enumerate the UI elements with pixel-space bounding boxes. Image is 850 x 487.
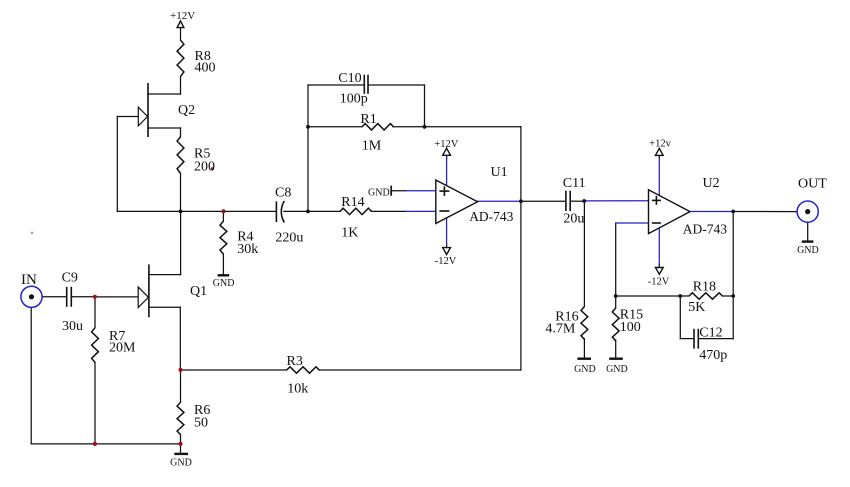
- svg-text:1M: 1M: [362, 139, 382, 154]
- svg-text:AD-743: AD-743: [683, 221, 727, 236]
- svg-text:IN: IN: [21, 272, 37, 288]
- svg-text:100: 100: [620, 320, 641, 335]
- svg-text:C9: C9: [62, 271, 78, 286]
- svg-text:C10: C10: [338, 71, 361, 86]
- svg-text:+12v: +12v: [649, 139, 671, 150]
- svg-text:GND: GND: [574, 364, 596, 375]
- svg-text:R1: R1: [360, 112, 376, 127]
- svg-text:GND: GND: [368, 187, 390, 198]
- svg-text:C12: C12: [699, 326, 722, 341]
- svg-text:200: 200: [194, 160, 215, 175]
- svg-text:OUT: OUT: [798, 177, 827, 192]
- svg-text:470p: 470p: [699, 348, 727, 363]
- svg-text:C8: C8: [275, 186, 291, 201]
- svg-text:-12V: -12V: [435, 256, 457, 267]
- svg-text:R14: R14: [341, 195, 364, 210]
- svg-text:AD-743: AD-743: [469, 209, 513, 224]
- svg-text:220u: 220u: [275, 231, 303, 246]
- svg-text:GND: GND: [797, 245, 819, 256]
- svg-text:C11: C11: [563, 176, 586, 191]
- svg-text:5K: 5K: [688, 300, 705, 315]
- svg-text:+12V: +12V: [434, 139, 458, 150]
- svg-text:GND: GND: [170, 458, 192, 469]
- svg-text:U1: U1: [491, 165, 508, 180]
- svg-text:R18: R18: [693, 280, 716, 295]
- svg-text:10k: 10k: [287, 382, 308, 397]
- svg-text:U2: U2: [703, 176, 720, 191]
- svg-text:Q2: Q2: [178, 103, 195, 118]
- svg-text:30u: 30u: [62, 319, 83, 334]
- svg-text:-12V: -12V: [648, 277, 670, 288]
- svg-text:Q1: Q1: [190, 284, 207, 299]
- svg-text:GND: GND: [606, 364, 628, 375]
- svg-text:GND: GND: [213, 278, 235, 289]
- svg-text:+12V: +12V: [170, 10, 195, 22]
- svg-text:400: 400: [195, 61, 216, 76]
- svg-text:20M: 20M: [109, 341, 136, 356]
- svg-text:50: 50: [194, 416, 208, 431]
- svg-text:20u: 20u: [563, 212, 584, 227]
- svg-text:100p: 100p: [340, 92, 368, 107]
- svg-text:4.7M: 4.7M: [545, 321, 576, 336]
- svg-text:30k: 30k: [237, 242, 258, 257]
- svg-text:1K: 1K: [341, 226, 358, 241]
- svg-text:R3: R3: [287, 354, 303, 369]
